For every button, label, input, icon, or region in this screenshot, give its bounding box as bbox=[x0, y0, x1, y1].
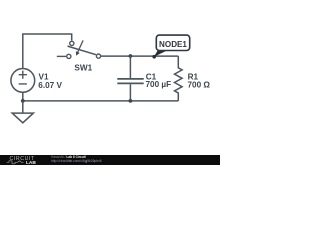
svg-text:LAB: LAB bbox=[26, 160, 36, 165]
voltage source V1 bbox=[11, 69, 35, 93]
node NODE1 flag pointer bbox=[154, 50, 168, 57]
svg-text:NODE1: NODE1 bbox=[159, 40, 187, 49]
node NODE1 label box bbox=[156, 35, 189, 50]
node junction dot C1 bottom bbox=[129, 99, 133, 103]
wire bottom rail bbox=[23, 100, 179, 102]
svg-text:6.07 V: 6.07 V bbox=[38, 81, 62, 90]
footer bar bbox=[0, 155, 220, 165]
node junction dot C1 top bbox=[129, 54, 133, 58]
wire from SW1 to R1 bbox=[101, 55, 179, 57]
switch SW1 bbox=[57, 40, 101, 58]
capacitor C1 bbox=[117, 56, 143, 101]
node NODE1 attach dot bbox=[152, 55, 156, 59]
ground bbox=[12, 113, 33, 123]
svg-text:SW1: SW1 bbox=[74, 64, 92, 73]
node junction dot bottom-left bbox=[21, 99, 25, 103]
resistor R1 bbox=[175, 56, 183, 101]
footer logo waveform bbox=[7, 161, 24, 164]
svg-text:700 µF: 700 µF bbox=[146, 80, 172, 89]
svg-text:http://circuitlab.com/c/6gj5k2: http://circuitlab.com/c/6gj5k26pbv6 bbox=[51, 159, 102, 163]
wire to ground bbox=[22, 101, 24, 113]
svg-text:700 Ω: 700 Ω bbox=[188, 80, 211, 89]
wire top from V1 to SW1 common bbox=[23, 34, 72, 69]
wire V1 bottom bbox=[22, 92, 24, 101]
